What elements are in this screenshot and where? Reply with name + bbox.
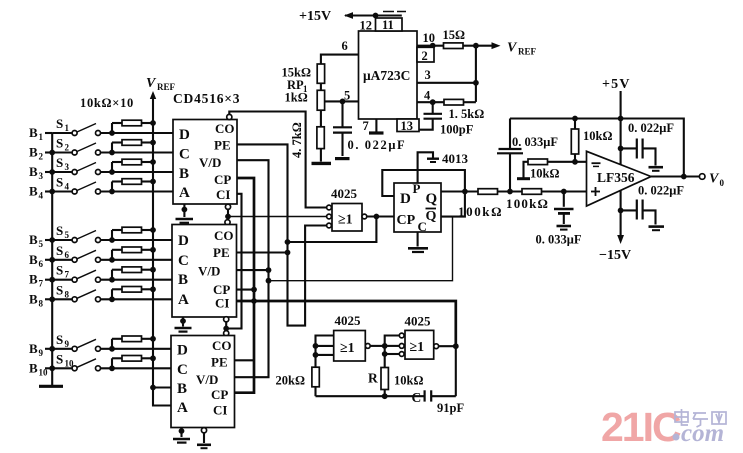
svg-text:B: B: [29, 232, 38, 247]
flip-flop U6 4013: [394, 181, 441, 234]
svg-text:0. 022μF: 0. 022μF: [628, 121, 674, 135]
svg-text:4025: 4025: [335, 313, 362, 328]
wire VREF bus to U3 input A: [153, 388, 171, 406]
svg-text:S: S: [56, 243, 63, 258]
svg-text:Q: Q: [426, 191, 438, 207]
svg-text:S: S: [56, 136, 63, 151]
pin 7 U4 with ground: [363, 119, 384, 133]
svg-text:CI: CI: [215, 296, 229, 311]
svg-text:9: 9: [39, 348, 44, 358]
node B8: [29, 291, 55, 308]
pin U3 top: [224, 331, 229, 336]
svg-text:10kΩ: 10kΩ: [530, 167, 559, 181]
svg-text:10kΩ: 10kΩ: [583, 129, 612, 143]
svg-text:Q: Q: [426, 209, 437, 224]
svg-text:S: S: [56, 175, 63, 190]
wire oscillator bottom: [316, 395, 425, 397]
node B4: [29, 184, 55, 201]
resistor 10k (row 10): [112, 355, 156, 368]
wire U5 output node down to PE line: [288, 217, 377, 243]
resistor 10k (row 6): [112, 247, 156, 260]
pin 2 U4 (boxed): [417, 47, 434, 63]
svg-text:μA723C: μA723C: [363, 68, 410, 83]
switch S6: [52, 243, 100, 262]
svg-text:V/D: V/D: [196, 372, 218, 387]
svg-text:C: C: [412, 390, 422, 405]
svg-text:D: D: [179, 127, 190, 143]
op-amp U9 LF356: [587, 151, 652, 206]
svg-text:A: A: [179, 185, 190, 201]
wire S7 to counter input: [101, 279, 173, 281]
wire PE bus (U1-U2 to gate input 3): [237, 144, 327, 325]
svg-text:8: 8: [65, 289, 70, 299]
svg-text:B: B: [29, 252, 38, 267]
capacitor 0.022uF (top supply): [621, 139, 663, 171]
svg-text:CP: CP: [397, 213, 416, 228]
svg-text:100kΩ: 100kΩ: [506, 196, 549, 211]
svg-text:A: A: [177, 400, 188, 416]
svg-text:PE: PE: [213, 245, 230, 260]
svg-text:7: 7: [39, 279, 44, 289]
counter U1 CD4516 (top block): [173, 120, 237, 205]
svg-text:CD4516×3: CD4516×3: [173, 91, 240, 106]
wire feedback top line: [510, 116, 687, 180]
node B9: [29, 341, 55, 358]
wire S9 to counter input: [101, 348, 171, 350]
wire cascade tap to gate input 2: [228, 216, 327, 218]
wire U6 Q output: [441, 190, 478, 192]
wire pin4: [417, 99, 444, 105]
svg-text:20kΩ: 20kΩ: [276, 374, 305, 388]
node VREF (top reference rail): [146, 76, 176, 388]
ground (U3 bottom left): [173, 428, 190, 443]
node VREF output label: [507, 41, 537, 57]
svg-text:8: 8: [39, 298, 44, 308]
svg-text:21IC: 21IC: [601, 404, 681, 450]
resistor 10k (row 1): [112, 120, 156, 133]
switch S7: [52, 263, 100, 283]
switch S2: [52, 136, 100, 156]
svg-text:≥1: ≥1: [338, 213, 353, 228]
wire S10 to counter input: [101, 367, 171, 369]
resistor 10k (row 2): [112, 140, 156, 153]
svg-text:B: B: [178, 272, 188, 288]
svg-text:11: 11: [382, 18, 394, 32]
wire S5 to counter input: [101, 239, 173, 241]
wire S1 to counter input: [101, 132, 173, 134]
svg-text:CI: CI: [216, 187, 230, 202]
svg-text:B: B: [29, 360, 38, 375]
svg-text:B: B: [29, 164, 38, 179]
svg-text:91pF: 91pF: [437, 401, 464, 415]
svg-text:B: B: [29, 291, 38, 306]
resistor 10k (row 5): [112, 227, 156, 240]
svg-text:S: S: [56, 332, 63, 347]
svg-text:B: B: [177, 381, 187, 397]
svg-text:10kΩ: 10kΩ: [394, 374, 423, 388]
svg-text:4025: 4025: [405, 314, 432, 329]
svg-text:D: D: [177, 343, 188, 359]
resistor 100k (first): [478, 189, 498, 195]
svg-text:B: B: [29, 272, 38, 287]
pin U1 bottom cascade: [225, 204, 230, 209]
resistor 10k (row 8): [112, 286, 156, 299]
node V0 output label: [709, 172, 725, 189]
svg-text:S: S: [56, 116, 63, 131]
capacitor 0.033uF (series to feedback line): [497, 119, 523, 192]
node B1: [29, 125, 52, 142]
wire pin10 output: [417, 43, 444, 49]
node B2: [29, 145, 55, 162]
switch S8: [52, 282, 100, 302]
power -15V rail: [599, 190, 631, 263]
svg-text:4: 4: [65, 182, 70, 192]
wire S2 to counter input: [101, 151, 173, 153]
svg-text:2: 2: [65, 143, 70, 153]
wire PE U3 stub: [235, 359, 255, 361]
pin U3 bottom with ground: [197, 428, 211, 449]
svg-text:4: 4: [424, 89, 431, 103]
wire pin6 to divider chain: [321, 55, 359, 64]
resistor 4.7k (divider bottom): [317, 110, 324, 148]
wire V/D U2 stub: [237, 269, 269, 271]
switch S1: [52, 116, 100, 136]
svg-text:7: 7: [65, 270, 70, 280]
svg-text:PE: PE: [214, 138, 231, 153]
svg-text:100kΩ: 100kΩ: [458, 204, 503, 219]
svg-text:V/D: V/D: [199, 155, 221, 170]
svg-text:1. 5kΩ: 1. 5kΩ: [449, 107, 485, 121]
wire U2 cascade to U3 top: [225, 322, 227, 331]
svg-text:4025: 4025: [331, 186, 358, 201]
svg-text:D: D: [178, 233, 189, 249]
wire U7 output to U8 inputs: [370, 343, 387, 349]
resistor 10k (feedback vertical): [571, 119, 578, 162]
svg-text:1kΩ: 1kΩ: [285, 91, 308, 105]
svg-text:2: 2: [39, 152, 44, 162]
svg-text:C: C: [177, 362, 188, 378]
pin CO U1 (top pin): [227, 114, 232, 119]
svg-text:15Ω: 15Ω: [443, 28, 466, 42]
wire RP1 tap to pin 5: [325, 99, 359, 105]
resistor 10k (row 3): [112, 159, 156, 172]
svg-text:3: 3: [425, 68, 431, 82]
capacitor 0.022uF (pin 5): [333, 101, 352, 158]
svg-text:9: 9: [65, 339, 70, 349]
node B bus (left common line with end bar): [51, 133, 53, 385]
resistor 1.5k: [444, 99, 476, 105]
svg-text:S: S: [56, 282, 63, 297]
wire U6 feedback loop Q to D: [382, 170, 468, 217]
svg-text:R: R: [368, 371, 378, 386]
svg-text:D: D: [400, 191, 411, 207]
svg-text:0. 022μF: 0. 022μF: [638, 184, 684, 198]
svg-text:100pF: 100pF: [440, 123, 474, 137]
power +15V: [299, 9, 406, 24]
wire U6 Qbar to V/D bus: [269, 217, 453, 281]
svg-text:1: 1: [65, 123, 70, 133]
svg-text:CO: CO: [212, 338, 232, 353]
svg-text:A: A: [178, 292, 189, 308]
svg-text:B: B: [29, 341, 38, 356]
svg-text:+5V: +5V: [602, 77, 631, 92]
wire PE U2 stub: [237, 251, 288, 253]
svg-text:6: 6: [39, 259, 44, 269]
wire CP U2 stub: [237, 289, 255, 291]
wire op-amp output: [651, 174, 705, 180]
svg-text:B: B: [179, 166, 189, 182]
svg-text:5: 5: [39, 239, 44, 249]
wire to op-amp non-inverting input: [542, 189, 587, 195]
switch S9: [52, 332, 100, 352]
pin 13 U4 (boxed): [397, 119, 419, 133]
ground (divider bottom): [312, 149, 332, 164]
svg-text:0. 033μF: 0. 033μF: [512, 135, 558, 149]
wire S4 to counter input: [101, 190, 173, 192]
svg-text:CP: CP: [214, 172, 231, 187]
svg-text:CO: CO: [215, 121, 235, 136]
svg-text:7: 7: [363, 119, 369, 133]
pin 11 U4 (boxed): [376, 18, 403, 32]
svg-text:0. 022μF: 0. 022μF: [348, 138, 407, 152]
node B6: [29, 252, 55, 269]
switch S5: [52, 223, 100, 243]
wire U8 output to feedback node: [439, 345, 456, 347]
resistor R 10k: [381, 368, 388, 400]
gate U5 4025 (NOR near counters): [327, 186, 367, 231]
label RP1: [287, 78, 308, 94]
resistor 15 ohm: [444, 43, 464, 49]
svg-text:B: B: [29, 184, 38, 199]
wire clock line from oscillator to CP bus and U2 CI: [237, 301, 459, 349]
node B10: [29, 360, 55, 377]
watermark chinese glyphs: [675, 409, 726, 427]
switch S10: [52, 351, 100, 371]
resistor 15k (divider top): [317, 64, 324, 83]
svg-text:3: 3: [65, 162, 70, 172]
svg-text:S: S: [56, 155, 63, 170]
pin U2 bottom cascade: [224, 317, 229, 322]
svg-text:S: S: [56, 351, 63, 366]
svg-text:4013: 4013: [442, 151, 469, 166]
wire VREF bus to U3 input B: [153, 386, 171, 388]
ground (U2 bottom left): [175, 317, 192, 332]
resistor 20k: [312, 367, 319, 396]
svg-text:P: P: [413, 181, 421, 196]
svg-text:2: 2: [422, 49, 428, 63]
node B3: [29, 164, 55, 181]
wire U8 input bus: [382, 336, 399, 368]
gate U7 4025 (oscillator left): [334, 313, 370, 361]
resistor 10k (row 7): [112, 267, 156, 280]
switch S4: [52, 175, 100, 195]
wire node between 100k resistors: [498, 189, 523, 195]
svg-text:4. 7kΩ: 4. 7kΩ: [290, 122, 304, 158]
svg-text:C: C: [179, 147, 190, 163]
svg-text:≥1: ≥1: [410, 340, 425, 355]
svg-text:CP: CP: [211, 387, 228, 402]
svg-text:4: 4: [39, 191, 44, 201]
wire CI bus (U1 CI to cascade node): [229, 194, 242, 329]
capacitor 0.033uF (to ground at +input): [554, 192, 574, 230]
potentiometer RP1 1k: [317, 83, 324, 110]
wire S3 to counter input: [101, 171, 173, 173]
svg-text:−15V: −15V: [599, 248, 631, 263]
svg-text:10kΩ×10: 10kΩ×10: [80, 96, 134, 110]
svg-text:12: 12: [360, 19, 373, 33]
wire U6 preset P to ground: [418, 152, 439, 183]
svg-text:1: 1: [39, 132, 44, 142]
svg-text:13: 13: [401, 119, 414, 133]
wire CP bus: [235, 178, 255, 393]
svg-text:6: 6: [342, 39, 348, 53]
wire U1 cascade to U2 top with tap: [227, 209, 229, 219]
regulator U4 uA723C: [359, 31, 418, 119]
svg-text:3: 3: [39, 171, 44, 181]
svg-text:0. 033μF: 0. 033μF: [536, 233, 582, 247]
power +5V rail: [602, 77, 631, 165]
svg-text:PE: PE: [211, 355, 228, 370]
svg-text:S: S: [56, 223, 63, 238]
node B7: [29, 272, 55, 289]
svg-text:0: 0: [720, 178, 725, 188]
svg-text:REF: REF: [518, 47, 537, 57]
watermark dot: [673, 434, 680, 441]
svg-text:≥1: ≥1: [340, 341, 355, 356]
resistor 10k (row 9): [112, 336, 156, 349]
resistor 100k (second): [522, 189, 542, 195]
svg-text:S: S: [56, 263, 63, 278]
wire feedback vertical (pin10 to pin3 to 1.5k): [475, 46, 477, 102]
wire U5 output to 4013 CP: [367, 214, 394, 220]
resistor 10k (bias to ground at -input): [517, 159, 587, 179]
wire CO U1 to gate input 1: [229, 112, 326, 208]
svg-text:CI: CI: [213, 403, 227, 418]
wire 15ohm to VREF terminal: [463, 42, 501, 49]
resistor 10k (row 4): [112, 179, 156, 192]
capacitor 100pF: [419, 102, 442, 130]
capacitor 0.022uF (bottom supply): [621, 200, 664, 231]
svg-text:B: B: [29, 145, 38, 160]
svg-text:B: B: [29, 125, 38, 140]
node B5: [29, 232, 55, 249]
ground (U1 bottom left): [176, 204, 194, 223]
svg-text:V/D: V/D: [198, 264, 220, 279]
svg-text:C: C: [178, 253, 189, 269]
gate U8 4025 (oscillator right): [399, 314, 438, 360]
svg-text:LF356: LF356: [597, 170, 635, 185]
wire V/D bus: [235, 160, 269, 377]
switch S3: [52, 155, 100, 175]
counter U2 CD4516 (middle block): [172, 225, 237, 318]
svg-text:+15V: +15V: [299, 9, 331, 24]
svg-text:6: 6: [65, 250, 70, 260]
svg-text:5: 5: [65, 230, 70, 240]
capacitor C 91pF: [425, 346, 456, 401]
wire U7 inputs tied: [313, 336, 334, 368]
pin U2 top: [225, 220, 230, 225]
svg-text:CO: CO: [214, 228, 234, 243]
ground (U6 clear pin): [408, 232, 428, 252]
wire pin3: [417, 80, 479, 86]
wire S6 to counter input: [101, 259, 173, 261]
counter U3 CD4516 (bottom block): [171, 336, 235, 428]
wire S8 to counter input: [101, 298, 173, 300]
